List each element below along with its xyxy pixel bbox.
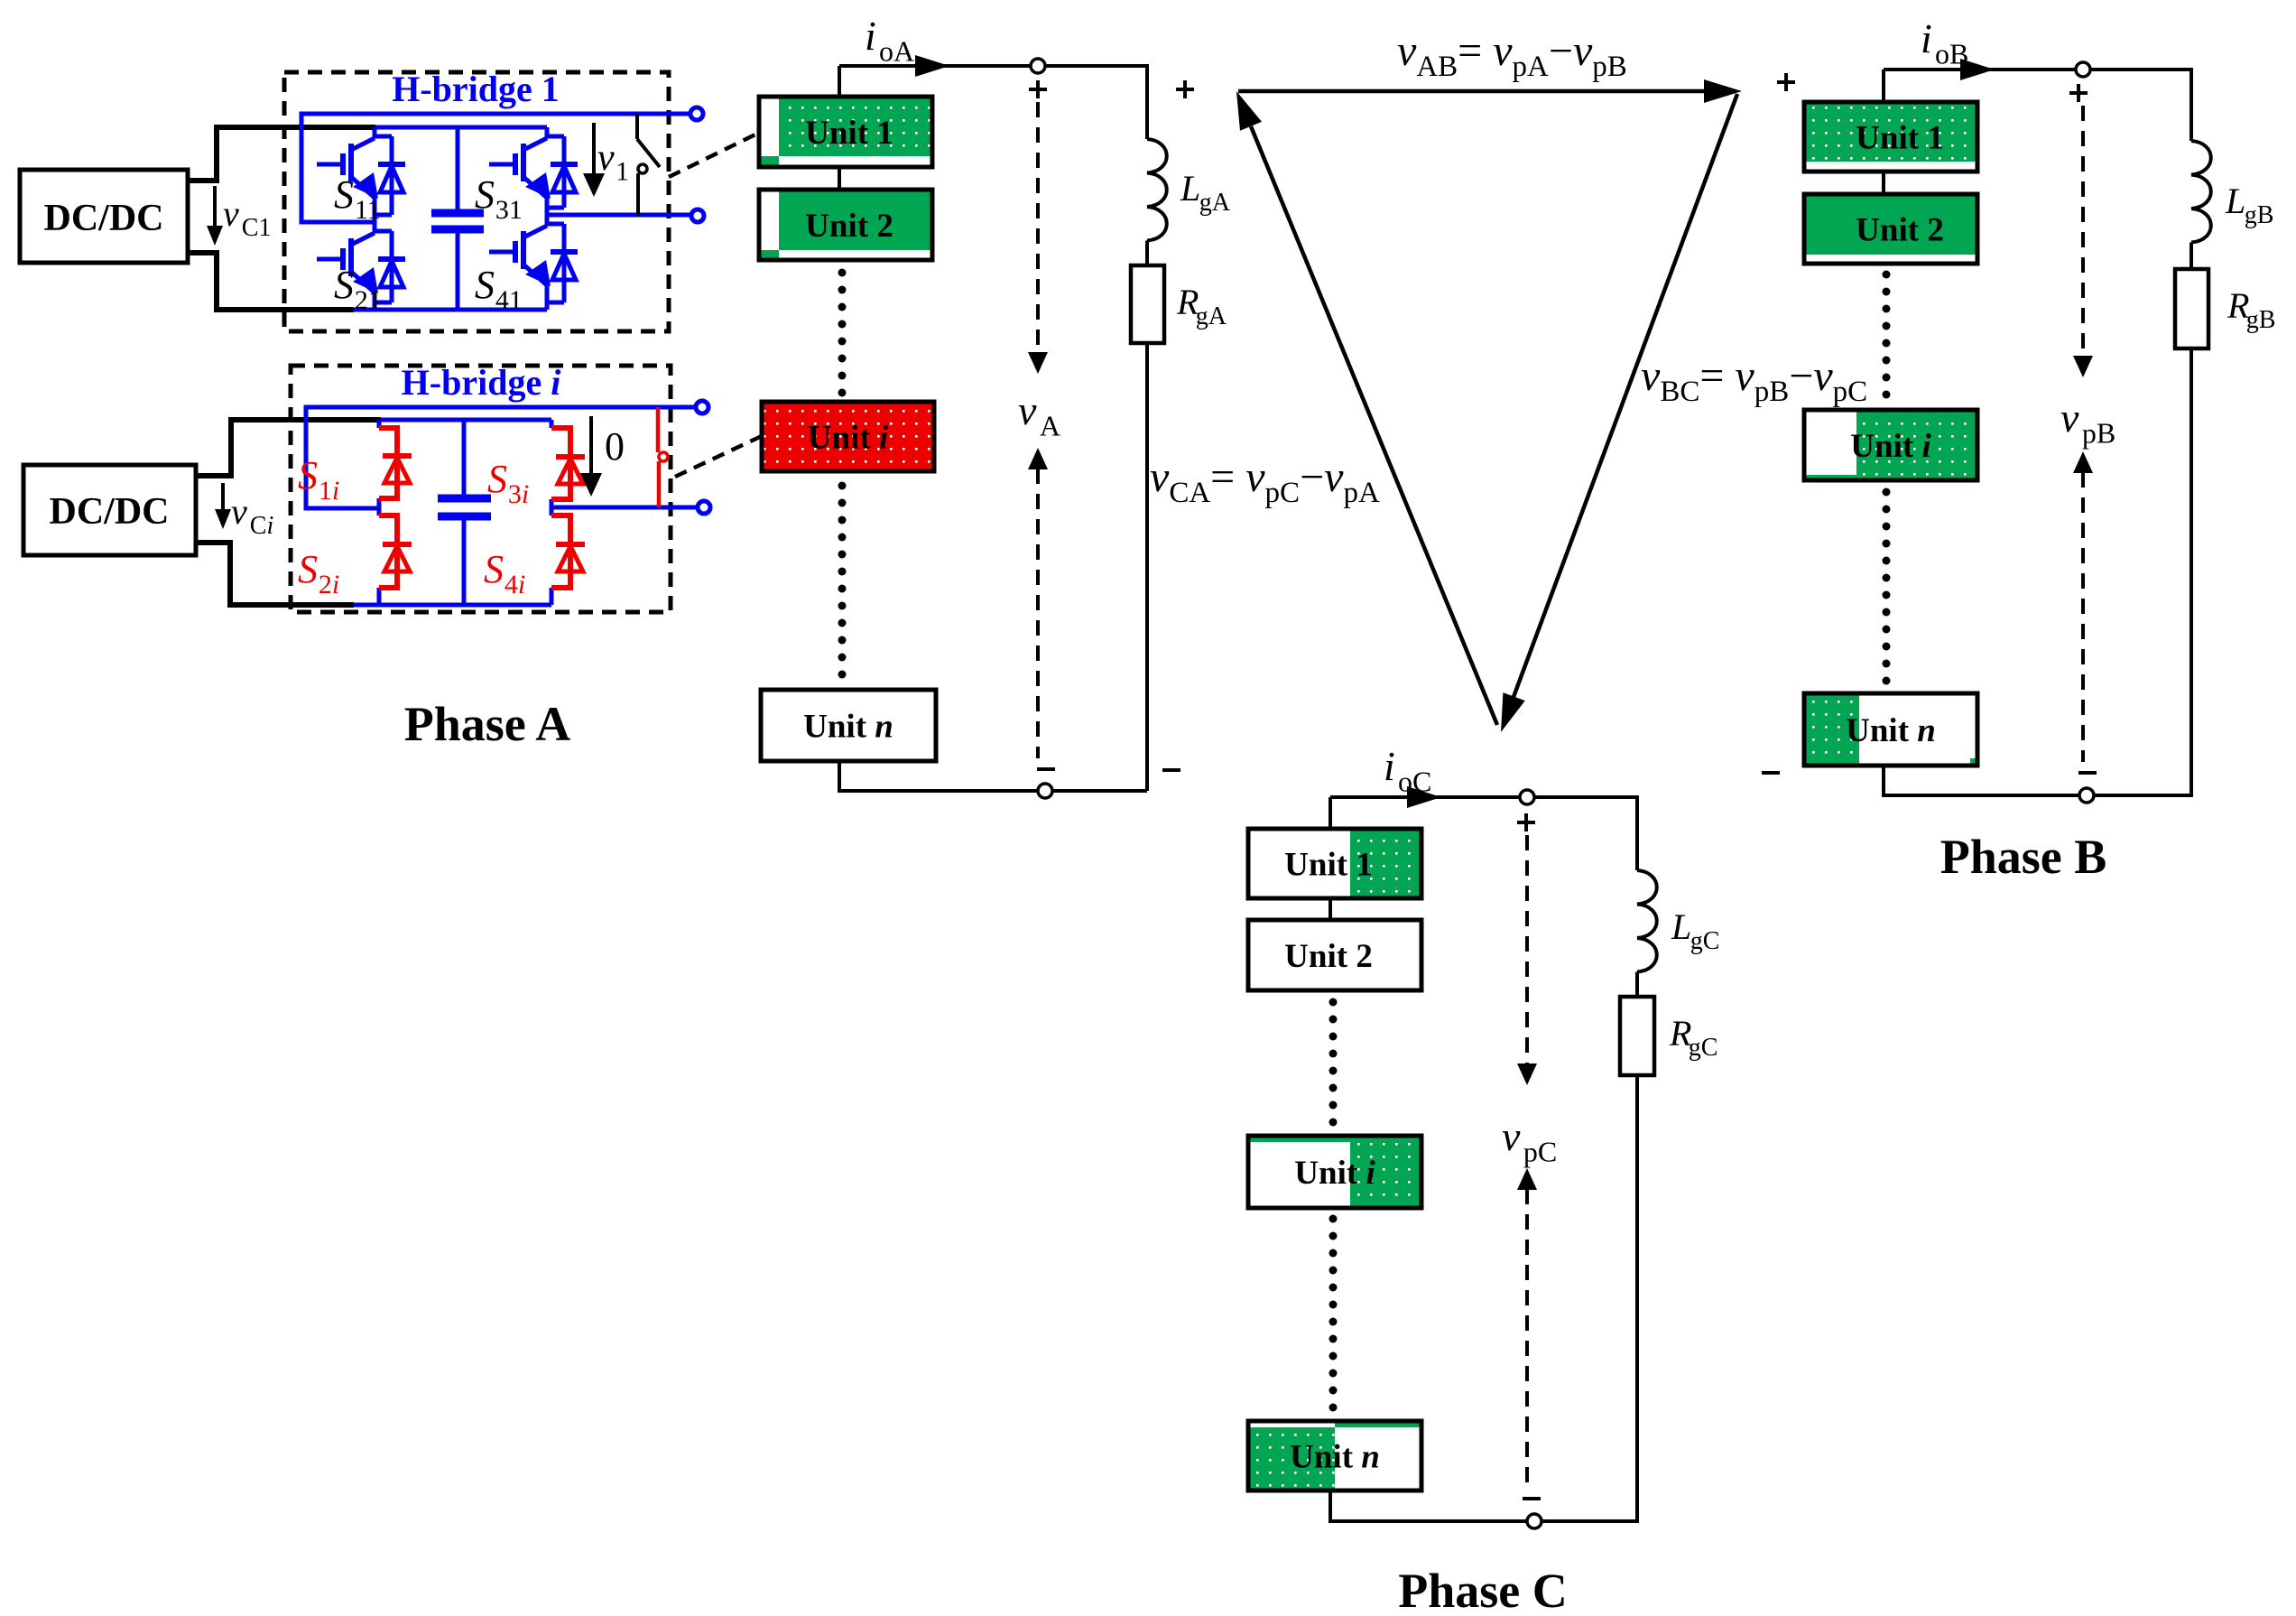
arrow vpC upper: [1517, 835, 1537, 1085]
wire phaseA bottom right: [1052, 789, 1147, 793]
unit n phase C: [1248, 1421, 1421, 1491]
label vpC: [1502, 1113, 1557, 1167]
minus phaseB left: [1762, 771, 1780, 775]
label S31: [475, 172, 523, 225]
inductor LgB: [2191, 141, 2211, 243]
wire unit1C top: [1329, 797, 1332, 829]
wire LgB-RgB: [2190, 243, 2193, 270]
label RgB: [2227, 285, 2275, 334]
arrow vCi: [215, 483, 231, 529]
label S4i: [484, 547, 525, 599]
resistor RgC: [1620, 997, 1654, 1075]
svg-text:pB: pB: [2082, 416, 2115, 449]
capacitor Ci: [438, 420, 491, 605]
wire bridgei right-leg blue joints: [550, 420, 554, 605]
node A bottom: [1038, 784, 1052, 798]
svg-text:Unit 2: Unit 2: [1856, 212, 1944, 249]
arrow vA lower: [1028, 448, 1048, 758]
wire phaseA right top: [1045, 66, 1147, 139]
minus vpC: [1523, 1497, 1541, 1500]
svg-text:gA: gA: [1199, 189, 1231, 217]
resistor RgB: [2175, 269, 2208, 348]
label vpB: [2060, 395, 2115, 449]
ellipsis B upper: [1883, 271, 1891, 399]
plus triangle left: [1176, 80, 1194, 98]
label v1: [597, 137, 629, 186]
wire unit1B top: [1882, 70, 1885, 102]
arrow v1: [583, 123, 605, 197]
svg-text:v: v: [1502, 1113, 1521, 1159]
wire phaseB right top: [2090, 70, 2191, 141]
arrow vpB lower: [2073, 451, 2093, 762]
wire DC/DC1 positive output: [188, 127, 375, 181]
minus phaseA right: [1162, 768, 1180, 772]
switch SWi closed: [658, 407, 668, 507]
label LgC: [1671, 906, 1719, 955]
plus vA: [1029, 80, 1047, 98]
ellipsis C lower: [1329, 1215, 1338, 1412]
wire ioB: [1884, 59, 2083, 80]
label LgA: [1180, 168, 1231, 217]
label zero: [605, 424, 625, 469]
dashed connector bridgei to UnitiA: [675, 436, 762, 477]
unit 1 phase C: [1248, 829, 1421, 898]
label LgB: [2225, 181, 2273, 229]
wire unitnC bottom: [1330, 1491, 1534, 1521]
unit n phase A: [761, 690, 936, 761]
svg-text:31: 31: [495, 195, 523, 225]
svg-text:H-bridge i: H-bridge i: [402, 362, 561, 403]
label RgA: [1176, 282, 1227, 330]
svg-text:oA: oA: [879, 34, 914, 67]
unit i phase C: [1248, 1136, 1421, 1208]
label Phase A: [404, 697, 571, 751]
unit n phase B: [1804, 693, 1977, 766]
inductor LgA: [1147, 139, 1167, 241]
wire bridge1 output-B: [547, 213, 698, 218]
label vA: [1018, 387, 1060, 441]
svg-text:A: A: [1040, 409, 1060, 441]
svg-text:11: 11: [355, 195, 381, 225]
wire bridgei left-leg blue joints: [377, 420, 382, 605]
diode S1i: [379, 428, 412, 498]
svg-text:Unit 1: Unit 1: [1284, 847, 1373, 884]
svg-text:gB: gB: [2245, 201, 2274, 229]
wire unitnB bottom: [1884, 766, 2087, 795]
svg-text:i: i: [1921, 15, 1932, 61]
svg-text:DC/DC: DC/DC: [50, 491, 170, 533]
wire LgA-RgA: [1145, 241, 1149, 266]
wire bridgei output-A loop: [306, 407, 702, 508]
label S21: [334, 263, 382, 315]
node C top: [1520, 790, 1534, 804]
ellipsis A upper: [838, 269, 847, 397]
H-bridge 1 enclosure: [284, 72, 669, 331]
wire unit1B-unit2B: [1882, 172, 1885, 194]
plus vpC: [1517, 813, 1535, 831]
wire ioC: [1330, 786, 1527, 808]
terminal bridge1 top: [690, 107, 703, 120]
unit 2 phase C: [1248, 920, 1421, 990]
unit i phase A: [762, 402, 934, 471]
svg-text:S: S: [334, 263, 354, 307]
label H-bridge 1: [392, 69, 560, 109]
svg-text:Unit 1: Unit 1: [805, 115, 893, 152]
label ioC: [1384, 743, 1431, 797]
label vCA formula: [1150, 453, 1380, 509]
svg-text:L: L: [1671, 906, 1691, 947]
node B top: [2076, 62, 2090, 77]
svg-text:21: 21: [355, 285, 382, 315]
svg-text:Unit 1: Unit 1: [1856, 120, 1944, 157]
svg-text:S: S: [484, 547, 504, 591]
unit 2 phase B: [1804, 194, 1977, 264]
dashed connector bridge1 to Unit1A: [669, 133, 759, 177]
label vC1: [223, 193, 271, 242]
arrow zero state: [580, 416, 602, 497]
DC/DC converter block 2: [23, 465, 196, 555]
inductor LgC: [1637, 870, 1657, 972]
svg-text:0: 0: [605, 424, 625, 469]
svg-text:4i: 4i: [505, 570, 525, 599]
minus vpB: [2078, 771, 2097, 775]
arrow vC1: [207, 186, 223, 246]
label vBC formula: [1641, 352, 1867, 408]
node A top: [1031, 59, 1045, 73]
arrow vCA: [1236, 91, 1497, 725]
label Phase B: [1940, 830, 2107, 884]
unit i phase B: [1804, 410, 1977, 480]
svg-text:S: S: [298, 547, 318, 591]
wire bridge1 DC- rail: [354, 308, 547, 312]
wire ioA: [839, 55, 1038, 77]
svg-text:Unit i: Unit i: [1850, 428, 1931, 465]
diode S2i: [379, 515, 412, 588]
svg-text:1i: 1i: [319, 476, 339, 506]
svg-text:2i: 2i: [319, 570, 339, 599]
svg-text:H-bridge 1: H-bridge 1: [392, 69, 560, 109]
H-bridge i enclosure: [291, 366, 671, 612]
arrow vpB upper: [2073, 106, 2093, 377]
svg-text:S: S: [475, 263, 495, 307]
label S2i: [298, 547, 339, 599]
svg-text:Unit 2: Unit 2: [1284, 938, 1373, 975]
minus vA: [1037, 767, 1055, 771]
label ioA: [865, 13, 914, 67]
svg-text:Phase B: Phase B: [1940, 830, 2107, 884]
arrow vAB: [1238, 79, 1742, 103]
label ioB: [1921, 15, 1968, 70]
svg-text:i: i: [865, 13, 876, 59]
svg-text:Ci: Ci: [250, 512, 273, 540]
svg-text:3i: 3i: [508, 479, 529, 509]
svg-text:Phase C: Phase C: [1398, 1564, 1568, 1616]
plus vpB: [2069, 84, 2088, 102]
label S1i: [298, 453, 339, 506]
svg-text:v: v: [1018, 387, 1037, 433]
IGBT S11: [317, 127, 405, 222]
wire RgA down: [1145, 343, 1149, 791]
svg-text:v: v: [2060, 395, 2079, 441]
ellipsis A lower: [838, 482, 847, 679]
capacitor C1: [431, 127, 484, 310]
label S11: [334, 172, 381, 225]
unit 1 phase B: [1804, 102, 1977, 172]
svg-text:v: v: [223, 193, 239, 234]
svg-text:gC: gC: [1690, 927, 1720, 955]
svg-text:v: v: [231, 491, 247, 532]
svg-text:Unit n: Unit n: [1846, 712, 1936, 749]
ellipsis B lower: [1883, 488, 1891, 685]
svg-text:1: 1: [616, 156, 629, 186]
svg-text:Unit n: Unit n: [1290, 1439, 1380, 1476]
wire unit1A top: [838, 66, 841, 97]
svg-text:Unit 2: Unit 2: [805, 208, 893, 245]
svg-text:oB: oB: [1935, 37, 1968, 70]
unit 1 phase A: [759, 97, 932, 167]
label S41: [475, 263, 523, 315]
svg-text:S: S: [334, 172, 354, 217]
wire phaseC right top: [1534, 797, 1637, 870]
wire bridgei DC- rail: [354, 603, 551, 608]
wire unit1A-unit2A: [838, 167, 841, 190]
wire bridge1 output-A loop: [301, 114, 697, 222]
svg-text:gA: gA: [1196, 302, 1227, 330]
wire LgC-RgC: [1635, 972, 1639, 998]
node B bottom: [2079, 788, 2094, 803]
IGBT S31: [489, 127, 578, 215]
terminal bridgei bottom: [698, 501, 710, 514]
svg-text:DC/DC: DC/DC: [44, 198, 164, 239]
label vAB formula: [1397, 27, 1627, 83]
label Phase C: [1398, 1564, 1568, 1616]
wire RgB down: [2094, 348, 2191, 795]
svg-text:oC: oC: [1398, 765, 1431, 797]
label S3i: [487, 457, 529, 509]
arrow vA upper: [1028, 102, 1048, 374]
svg-text:41: 41: [495, 285, 523, 315]
wire DC/DC1 negative output: [188, 253, 354, 310]
svg-text:Unit i: Unit i: [808, 420, 889, 457]
wire bridgei DC+ rail: [381, 418, 551, 423]
svg-text:Phase A: Phase A: [404, 697, 571, 751]
arrow vpC lower: [1517, 1168, 1537, 1485]
ellipsis C upper: [1329, 998, 1338, 1127]
wire DC/DC2 positive output: [196, 420, 381, 476]
IGBT S41: [489, 215, 578, 310]
svg-text:gC: gC: [1689, 1034, 1718, 1062]
terminal bridgei top: [696, 401, 708, 413]
svg-text:L: L: [2225, 181, 2245, 221]
wire bridge1 DC+ rail: [375, 125, 547, 130]
switch SW1: [637, 114, 660, 216]
wire RgC down: [1541, 1075, 1637, 1521]
svg-text:v: v: [597, 137, 615, 179]
resistor RgA: [1131, 265, 1164, 343]
wire unitnA bottom: [839, 761, 1038, 791]
svg-text:S: S: [298, 453, 318, 497]
arrow vBC: [1501, 94, 1737, 732]
terminal bridge1 bottom: [691, 209, 704, 222]
label vCi: [231, 491, 273, 540]
plus triangle right: [1777, 73, 1795, 91]
svg-text:gB: gB: [2246, 306, 2276, 334]
label H-bridge i: [402, 362, 561, 403]
svg-text:pC: pC: [1523, 1135, 1557, 1167]
svg-text:Unit i: Unit i: [1294, 1155, 1375, 1192]
IGBT S21: [317, 222, 405, 310]
DC/DC converter block 1: [20, 170, 188, 263]
node C bottom: [1527, 1514, 1541, 1528]
unit 2 phase A: [759, 190, 932, 260]
wire bridgei output-B: [551, 506, 704, 510]
diode S3i: [551, 428, 585, 499]
svg-text:i: i: [1384, 743, 1395, 789]
wire DC/DC2 negative output: [196, 543, 354, 605]
label RgC: [1669, 1013, 1717, 1062]
svg-text:C1: C1: [242, 214, 272, 242]
diode S4i: [551, 515, 585, 588]
wire unit1C-unit2C: [1329, 898, 1332, 920]
svg-text:L: L: [1180, 168, 1200, 209]
svg-text:Unit n: Unit n: [803, 709, 893, 746]
